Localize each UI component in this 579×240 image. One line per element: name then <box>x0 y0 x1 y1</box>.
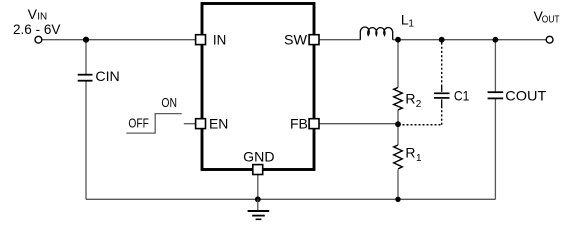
pin EN <box>196 119 206 129</box>
svg-text:C1: C1 <box>454 88 470 104</box>
svg-text:IN: IN <box>213 32 226 48</box>
svg-text:1: 1 <box>416 153 422 164</box>
wire: SW pin to inductor <box>319 39 361 41</box>
wire: GND pin to ground rail <box>257 175 259 200</box>
label VIN <box>28 6 47 23</box>
node A: inductor/R2 junction dot <box>395 37 401 43</box>
wire: EN stub wire <box>184 123 196 125</box>
node: COUT junction dot <box>493 37 499 43</box>
svg-text:1: 1 <box>408 19 414 30</box>
wire: R2 branch from node A down to R2 top <box>397 40 399 88</box>
svg-text:OUT: OUT <box>542 14 560 25</box>
ground <box>248 199 270 219</box>
pin FB <box>309 119 319 129</box>
svg-text:2: 2 <box>416 99 422 110</box>
svg-text:CIN: CIN <box>95 68 119 84</box>
wire: FB pin to FB node <box>319 123 398 125</box>
resistor R2 <box>394 88 403 110</box>
wire: VIN terminal to IN pin (top-left rail) <box>42 39 196 41</box>
label VOUT <box>534 8 560 25</box>
capacitor C1 (optional, dashed connections) <box>403 43 450 125</box>
label L1 <box>401 11 415 29</box>
wire: R1 bottom to ground rail <box>397 170 399 200</box>
wire: COUT branch vertical <box>494 40 496 92</box>
svg-text:2.6 - 6V: 2.6 - 6V <box>13 21 61 37</box>
wire: FB node down to R1 top <box>397 125 399 145</box>
wire: R2 bottom to FB node <box>397 110 399 125</box>
node: C1 top junction dot <box>439 37 445 43</box>
pin GND <box>253 165 263 175</box>
capacitor COUT <box>488 92 504 98</box>
svg-text:EN: EN <box>209 116 228 132</box>
svg-text:GND: GND <box>243 149 274 165</box>
svg-text:R: R <box>405 91 415 107</box>
inductor L1 <box>360 27 392 40</box>
terminal: VOUT output terminal circle <box>546 36 553 43</box>
svg-text:V: V <box>28 6 38 22</box>
pin IN <box>196 35 206 45</box>
op-amp U1: regulator IC body <box>202 4 314 170</box>
svg-text:R: R <box>405 144 415 160</box>
label R1 <box>405 144 422 164</box>
resistor R1 <box>394 145 403 169</box>
svg-text:SW: SW <box>284 32 308 48</box>
svg-text:FB: FB <box>290 116 308 132</box>
wire: CIN branch vertical from node down to bottom rail <box>85 40 87 74</box>
waveform: EN OFF/ON step annotation <box>126 114 181 134</box>
label R2 <box>405 91 421 111</box>
node: R1 bottom junction dot <box>395 197 400 202</box>
node: FB junction dot <box>395 121 401 127</box>
pin SW <box>309 35 319 45</box>
wire: inductor output rail to VOUT terminal <box>393 39 547 41</box>
node: VIN junction dot <box>83 37 89 43</box>
svg-text:COUT: COUT <box>505 88 546 104</box>
capacitor CIN <box>78 75 93 81</box>
terminal: VIN input terminal circle <box>35 36 42 43</box>
wire: bottom ground rail <box>86 198 495 200</box>
svg-text:ON: ON <box>161 95 177 110</box>
svg-text:OFF: OFF <box>128 116 149 131</box>
node: GND junction dot <box>255 196 261 202</box>
